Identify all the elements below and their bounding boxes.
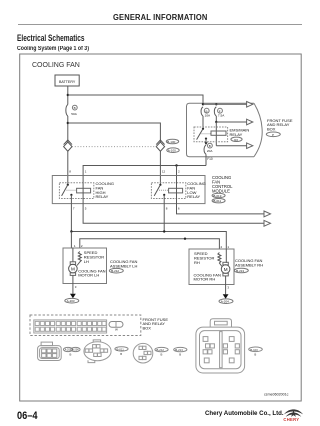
node fuse feed junction: [202, 103, 204, 105]
svg-text:MODULE: MODULE: [212, 188, 230, 193]
wire 10A fuse to relay contact: [202, 116, 204, 129]
svg-text:3: 3: [227, 286, 229, 290]
ground arrow LH: [70, 294, 76, 298]
svg-text:2: 2: [178, 169, 180, 173]
svg-text:10A: 10A: [205, 114, 211, 118]
svg-text:20A: 20A: [207, 149, 213, 153]
relay fixed contact node: [205, 138, 207, 140]
svg-text:B-212: B-212: [157, 348, 165, 352]
low relay contact node: [159, 184, 161, 186]
svg-text:COOLING FAN: COOLING FAN: [32, 62, 80, 69]
relay cooling fan high dashed body: [59, 183, 93, 199]
svg-text:B-019: B-019: [213, 194, 221, 198]
assembly id oval B-213: [234, 268, 248, 273]
connector diamond B-100/A-100 left: [64, 140, 72, 151]
wire top bus to fuse box: [68, 95, 203, 104]
face label oval B-011: [115, 347, 128, 351]
relay EMS/MAIN R2 dashed body: [194, 127, 228, 142]
high relay fixed node: [70, 194, 72, 196]
svg-text:BATTERY: BATTERY: [59, 80, 76, 84]
cooling fan assembly LH box: [63, 248, 107, 284]
svg-text:RELAY: RELAY: [187, 194, 200, 199]
motor M LH: [70, 262, 75, 265]
connector detail dashed box: [30, 315, 141, 336]
svg-text:RH: RH: [194, 260, 200, 265]
svg-text:7.5A: 7.5A: [218, 114, 225, 118]
svg-text:B: B: [120, 352, 122, 356]
fuse 10A: [201, 107, 203, 116]
svg-text:B: B: [209, 144, 211, 148]
svg-text:1: 1: [85, 169, 87, 173]
connector face large B-100: [196, 319, 245, 373]
connector oval B-203: [65, 298, 79, 303]
node relay coil feed junction: [215, 121, 217, 123]
svg-text:3: 3: [75, 285, 77, 289]
svg-text:B: B: [70, 353, 72, 357]
connector face round B-212/B-213: [133, 343, 153, 363]
svg-text:B: B: [254, 353, 256, 357]
ground arrow RH: [223, 294, 229, 298]
cooling fan control module box: [52, 176, 205, 204]
svg-text:A-204: A-204: [72, 349, 79, 352]
svg-text:MOTOR LH: MOTOR LH: [78, 273, 99, 278]
header title: [113, 12, 208, 22]
harness dotted link between connectors: [72, 146, 156, 148]
svg-text:B: B: [179, 353, 181, 357]
label oval B-100: [166, 139, 178, 144]
svg-text:B: B: [161, 353, 163, 357]
wire RH motor ground: [225, 276, 227, 294]
high relay contact node: [67, 184, 69, 186]
node high bus right feed: [163, 230, 165, 232]
svg-text:B: B: [74, 106, 76, 110]
svg-text:B-213: B-213: [236, 269, 244, 273]
svg-text:B-011: B-011: [117, 347, 125, 351]
svg-text:A-100: A-100: [168, 149, 176, 153]
arrow out 2: [247, 119, 253, 125]
svg-text:M: M: [71, 266, 75, 271]
arrowhead into fuse 20A: [204, 142, 207, 145]
connector oval B-204: [219, 299, 233, 304]
battery B+: [55, 75, 79, 86]
svg-text:csme0602001c: csme0602001c: [264, 392, 289, 396]
wire F10 run to module pins: [83, 166, 206, 176]
wire high speed bus: [71, 232, 226, 250]
wire coil through feed: [215, 122, 217, 146]
schematic outer frame: [20, 54, 302, 401]
svg-text:B-011: B-011: [213, 199, 221, 203]
wire battery main vertical: [67, 86, 69, 105]
fuse 50A value label: [72, 105, 77, 110]
arrow out 3: [247, 143, 253, 149]
arrow out 1: [247, 102, 253, 108]
node battery bus junction: [67, 94, 69, 96]
relay contact top node: [202, 128, 204, 130]
svg-text:1: 1: [227, 245, 229, 249]
svg-text:R2: R2: [234, 138, 238, 142]
svg-text:B-100: B-100: [250, 348, 258, 352]
connector face A-203/A-204: [38, 342, 62, 360]
fuse 20A: [204, 145, 206, 154]
svg-text:RELAY: RELAY: [96, 194, 109, 199]
svg-text:W: W: [115, 328, 118, 332]
svg-text:8: 8: [69, 169, 71, 173]
low relay fixed node: [163, 194, 165, 196]
wire relay output: [205, 139, 207, 143]
wire diamond1 to module pin 8: [67, 151, 69, 185]
fuse box id oval P: [266, 132, 280, 137]
node resistor bus: [184, 238, 186, 240]
module id oval B-011: [212, 199, 225, 203]
relay id oval R2: [231, 137, 242, 141]
low relay coil box: [169, 188, 183, 193]
svg-text:A-203: A-203: [67, 299, 75, 303]
motor M RH: [223, 262, 228, 265]
svg-text:7: 7: [73, 207, 75, 211]
wire pin5 to arrow run: [83, 204, 264, 224]
svg-text:8: 8: [166, 207, 168, 211]
svg-text:M: M: [224, 267, 228, 272]
svg-text:LH: LH: [84, 259, 89, 264]
face label ovals A-203 A-204: [63, 347, 72, 351]
fuse 7.5A: [214, 107, 216, 116]
arrow out 4: [264, 211, 271, 217]
relay blade: [197, 129, 203, 140]
wire LH motor ground: [72, 275, 74, 293]
footer page number: [17, 410, 38, 422]
svg-text:A-204: A-204: [221, 300, 229, 304]
svg-text:B-100: B-100: [167, 140, 175, 144]
wire pin2 through coil to pin6: [176, 176, 178, 204]
svg-text:BOX: BOX: [267, 127, 276, 132]
arrow out 5: [264, 220, 271, 226]
front fuse and relay box outline: [187, 103, 263, 157]
header rule: [18, 24, 302, 25]
svg-text:CHERY: CHERY: [283, 417, 299, 422]
svg-text:B-212: B-212: [111, 269, 119, 273]
svg-text:6: 6: [178, 207, 180, 211]
svg-text:F10: F10: [207, 157, 213, 161]
svg-text:BOX: BOX: [143, 326, 152, 331]
low relay blade: [154, 185, 160, 196]
node pin2 branch: [175, 164, 177, 166]
svg-text:2: 2: [81, 244, 83, 248]
high relay dash link: [67, 189, 77, 191]
svg-text:1: 1: [74, 244, 76, 248]
high relay blade: [62, 185, 68, 196]
connector face round B-212 style: [84, 340, 111, 363]
svg-text:B-213: B-213: [175, 348, 183, 352]
wire 7.5A fuse to branch: [215, 116, 217, 122]
node high bus left: [70, 230, 72, 232]
fuse 50A: [66, 105, 68, 117]
svg-text:12: 12: [162, 169, 166, 173]
speed resistor RH zigzag: [218, 253, 222, 267]
fuse box pin strip connector: [34, 320, 107, 333]
module id oval B-019: [212, 193, 225, 197]
wire inner top feed to arrow: [203, 103, 247, 105]
wire coil out to arrow 3: [216, 145, 246, 147]
relay cooling fan low dashed body: [151, 183, 185, 199]
wire pin7 down to high bus: [70, 204, 72, 232]
wire lower bus to diamond2: [68, 123, 161, 142]
chery logo wings: [284, 409, 303, 417]
svg-text:50A: 50A: [71, 112, 77, 116]
svg-text:RELAY: RELAY: [230, 132, 243, 137]
wire pin6 to arrow run: [177, 204, 265, 214]
label oval A-100: [167, 148, 179, 153]
svg-text:P: P: [272, 133, 274, 137]
wire into LH motor: [72, 248, 74, 262]
face label ovals B-212 B-213: [155, 347, 168, 351]
wire 20A to F10 drop: [205, 154, 207, 165]
connector diamond B-100/A-100 right: [156, 140, 164, 151]
wire branch to pin 2: [176, 166, 178, 176]
node lower bus junction: [67, 122, 69, 124]
section title: [17, 33, 85, 43]
wire resistor bus: [80, 239, 220, 249]
relay actuator dash link: [202, 133, 212, 135]
svg-text:5: 5: [85, 207, 87, 211]
cooling fan assembly RH box: [189, 249, 234, 285]
subsection title: [17, 46, 89, 52]
wire below 50A fuse to diamond: [67, 116, 69, 142]
connector P stadium: [109, 322, 123, 328]
svg-text:MOTOR RH: MOTOR RH: [194, 277, 216, 282]
svg-text:ASSEMBLY RH: ASSEMBLY RH: [235, 262, 263, 267]
relay coil box: [211, 131, 226, 135]
footer company: [205, 410, 284, 417]
wire diamond2 to module pin 12: [159, 151, 161, 185]
wire low relay output pin8: [163, 195, 165, 232]
svg-text:ASSEMBLY LH: ASSEMBLY LH: [110, 263, 138, 268]
high relay coil box: [77, 188, 91, 193]
wire branch to arrow 2: [216, 121, 246, 123]
low relay dash link: [159, 189, 169, 191]
speed resistor LH zigzag: [77, 252, 81, 266]
face label oval B-100: [249, 347, 263, 352]
svg-text:2: 2: [221, 245, 223, 249]
wire high relay output pin7: [70, 195, 72, 204]
wire pin1 through coil to pin5: [82, 176, 84, 204]
wire left motor pin1: [70, 232, 72, 249]
wire into RH motor: [225, 249, 227, 263]
assembly id oval B-212: [109, 268, 123, 273]
